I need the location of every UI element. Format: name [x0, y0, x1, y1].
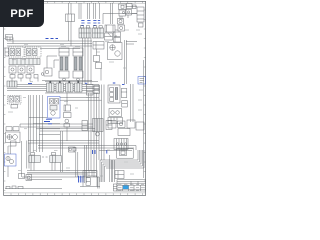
wire M2 riser [97, 49, 102, 81]
wire brake valve drains [31, 163, 55, 171]
sequence valve chain SV1 [64, 105, 72, 127]
node label (blue) [28, 83, 32, 85]
wire LP1 out [20, 124, 93, 127]
valve VU2 [106, 121, 112, 130]
bottom centre baseline [80, 176, 100, 187]
blue pump box BP1 [5, 154, 17, 166]
PDF badge [0, 0, 44, 27]
relief valve cluster R1 [105, 25, 116, 40]
motor unit MU1 [82, 121, 88, 131]
manifold valve MV2 [56, 81, 64, 92]
tank labels (blue) [79, 176, 83, 183]
left mid connector block LM1 [7, 81, 17, 87]
wire drops to solenoid labels [79, 3, 100, 19]
wire pilot lines centre [60, 98, 102, 101]
wire pair right vertical [125, 40, 127, 84]
centre pair lower [85, 93, 97, 183]
pilot unit cluster top-right U1 [119, 4, 137, 21]
frame zone ticks top [11, 2, 142, 4]
wire PS1 drops [76, 152, 78, 177]
control block CB1 [87, 85, 94, 96]
wires under left cluster [12, 73, 38, 82]
filter unit FU1 [109, 109, 122, 117]
frame zone ticks right [144, 10, 146, 181]
wire joystick feed [47, 56, 59, 68]
valve D2a [27, 49, 32, 56]
manifold row center MV [45, 82, 98, 94]
frame zone ticks left [4, 10, 6, 191]
pressure switch PS1 [69, 147, 77, 152]
valve D1b [16, 49, 21, 56]
frame inner border line top [4, 2, 146, 4]
blue detail box BD1 [48, 97, 61, 119]
bottom rail line [5, 188, 62, 190]
wire U1 to B1 [126, 7, 137, 14]
valve block A [79, 26, 91, 38]
BD1 label (blue) [46, 118, 52, 120]
joystick valve J2 [73, 48, 83, 81]
breather blue box BB1 [138, 77, 146, 85]
joystick valve J1 [59, 48, 69, 81]
centre vertical bundle B [99, 85, 104, 161]
main mid bus lines [7, 85, 99, 91]
wire bus risers [7, 36, 13, 44]
control block CB2 [94, 86, 100, 94]
nested corner verticals down [100, 160, 105, 182]
frame zone ticks bottom [11, 193, 142, 195]
bottom-left unit BL1 [19, 174, 32, 181]
sensor SN1 [121, 89, 127, 108]
port labels (blue) [44, 39, 58, 124]
shuttle valve SH1 [41, 68, 52, 76]
wire BP1 feeds [8, 141, 29, 178]
micro text labels (gray specks) [8, 30, 143, 176]
drain unit DU1 [115, 171, 124, 179]
sensor label (blue) [122, 84, 125, 86]
solenoid label Y3 (blue) [93, 21, 96, 26]
BP1 pump circles [6, 156, 14, 163]
right vertical wires [131, 60, 144, 178]
pilot valve P3 [27, 66, 34, 73]
title cell highlight (blue) [123, 186, 129, 190]
nameplate N1 [11, 105, 18, 109]
pump group PG1 [108, 42, 138, 60]
breather internals [140, 79, 145, 83]
valve VU1 [93, 119, 104, 137]
small box above BP1 [11, 141, 17, 146]
tank fitting [86, 177, 99, 189]
wire drops to title [110, 155, 115, 182]
solenoid label Y1 (blue) [81, 21, 84, 26]
frame inner border line bottom [4, 192, 146, 194]
revision boxes left of title [113, 184, 117, 191]
fitting row F1 [10, 75, 38, 79]
upper bus lines left [7, 41, 92, 49]
cooler CO1 [108, 118, 123, 124]
BD1 valve a [50, 99, 54, 105]
wire top-right drops [111, 3, 122, 36]
valve D1a [10, 49, 15, 56]
manifold valve MV3 [66, 81, 74, 92]
solenoid label Y2 (blue) [87, 21, 90, 23]
left pump unit LP1 [6, 127, 21, 143]
vertical wire bundle left-centre [29, 95, 43, 152]
BD1 valve b [55, 99, 59, 105]
junction box M1 [93, 42, 104, 50]
wire T1 to bus [69, 22, 72, 47]
wire drop pair from top border to valve T1 [69, 3, 72, 14]
brake valve BV1 [29, 153, 41, 163]
bottom rail fittings [6, 186, 23, 189]
bundle branch wires [29, 118, 60, 135]
node label B (blue) [85, 82, 115, 84]
title block rows [117, 180, 146, 190]
pilot valve DP1b [15, 97, 20, 103]
wire SV1 riser [66, 93, 68, 141]
main valve block MB1 [108, 85, 120, 103]
mid lower bus [40, 129, 95, 132]
check valve pair C1 [118, 19, 125, 32]
pilot valve DP1a [9, 97, 14, 103]
valve T1 [66, 14, 75, 22]
inset pump cluster IP1 [117, 149, 134, 159]
valve D2b [33, 49, 38, 56]
drawing frame outer border [4, 1, 146, 195]
lower bus extension right [99, 146, 136, 151]
tank unit TK1 bottom centre [83, 171, 97, 177]
mid bus bundle vertical A [83, 38, 92, 84]
riser pair centre [61, 131, 63, 172]
lower bus lines [28, 141, 99, 149]
bottom bus lines [22, 171, 99, 180]
dashed pilot box DP1 [8, 96, 22, 105]
winding unit W1 [114, 139, 128, 150]
title block columns [117, 180, 146, 191]
axis dash-dot link [42, 156, 48, 158]
lower distribution line [42, 80, 92, 82]
cluster right-mid CR1 [108, 120, 144, 136]
blue mark VU (blue) [93, 150, 107, 154]
manifold valve MV1 [47, 81, 55, 92]
stepped valve M2 [94, 56, 102, 69]
pilot valve P1 [9, 66, 16, 73]
valve bank row VB1 [9, 59, 40, 65]
pilot valve P2 [18, 66, 25, 73]
title text lines [118, 184, 145, 190]
title block outer [117, 181, 146, 191]
valve block B [93, 26, 104, 38]
left border component L2 [5, 48, 9, 56]
dashed manifold box D2 [25, 47, 41, 57]
left border component L1 [6, 35, 13, 40]
accumulator B1 [137, 7, 144, 27]
wire top bus right [103, 14, 137, 25]
nested corner wires [100, 150, 144, 168]
solenoid label Y4 (blue) [98, 21, 100, 23]
small valve stack S1 [114, 32, 121, 42]
dashed manifold box D1 [9, 47, 25, 57]
brake valve BV2 [50, 153, 62, 163]
BD1 body [50, 106, 57, 116]
manifold valve MV4 [75, 81, 83, 92]
